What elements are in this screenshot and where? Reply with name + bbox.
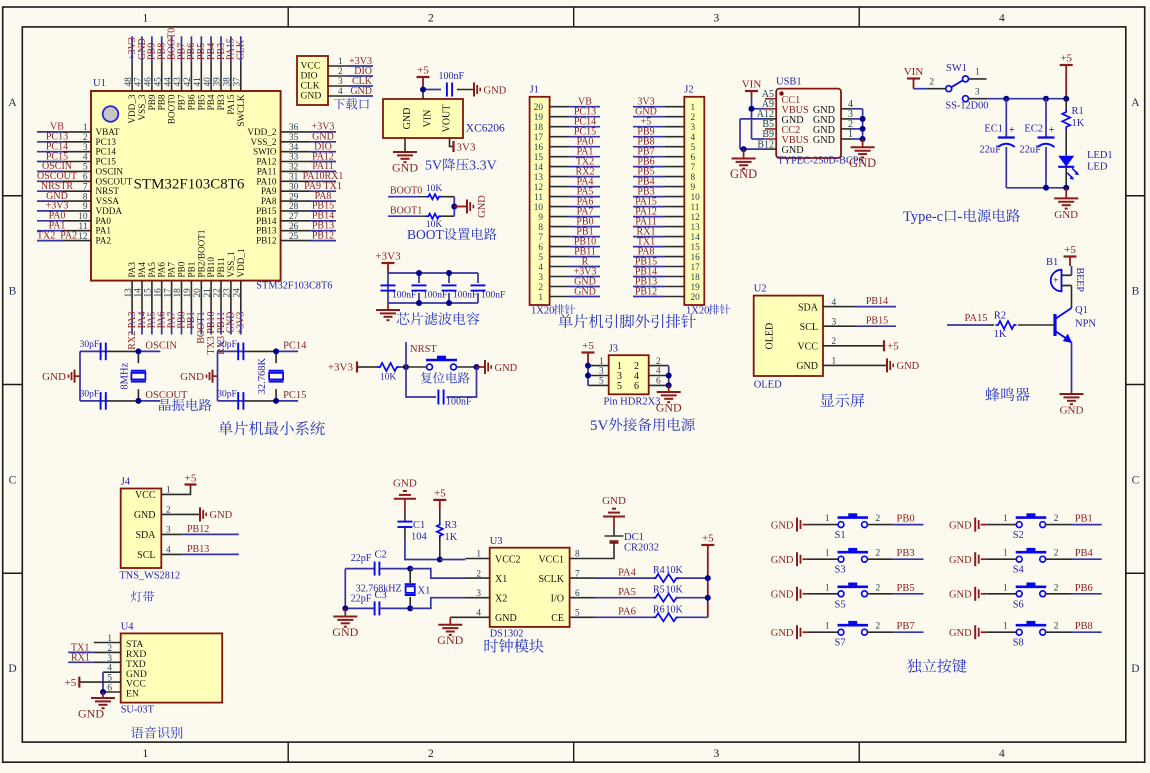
mcu U1 top pin 47 (VSS_3) wire+net GND: [141, 36, 143, 61]
svg-text:7: 7: [83, 182, 88, 192]
J1 pin 9 wire+net PA7: [550, 216, 570, 218]
svg-text:17: 17: [534, 133, 544, 143]
J2 pin 8 wire+net PB5: [664, 176, 684, 178]
J1 pin 1 wire+net GND: [550, 296, 570, 298]
J1 pin 6 wire+net PB10: [550, 246, 570, 248]
svg-text:47: 47: [134, 77, 144, 87]
J2 pin 5 wire+net PB8: [664, 146, 684, 148]
svg-text:PA8: PA8: [261, 196, 277, 206]
capacitor 30pF bottom 8MHz: [100, 392, 102, 410]
svg-text:GND: GND: [134, 510, 156, 521]
svg-text:15: 15: [534, 153, 544, 163]
svg-text:100nF: 100nF: [481, 291, 505, 301]
svg-text:PB6: PB6: [186, 94, 196, 110]
svg-text:10: 10: [691, 193, 701, 203]
svg-text:3: 3: [691, 123, 696, 133]
power port 3V3 at regulator output: [452, 141, 454, 152]
svg-text:+5: +5: [434, 487, 446, 499]
svg-text:30: 30: [289, 182, 299, 192]
connector J3 Pin HDR2X3: [609, 355, 649, 394]
svg-text:DS1302: DS1302: [490, 629, 524, 640]
svg-text:5: 5: [538, 253, 543, 263]
mcu U1 top pin 39 (PB3) wire+net PB3: [220, 36, 222, 61]
svg-text:19: 19: [534, 113, 544, 123]
svg-text:VDDA: VDDA: [96, 206, 123, 216]
svg-text:2: 2: [876, 622, 881, 632]
svg-text:B: B: [1132, 286, 1140, 298]
J3 right pin 4 wire: [649, 375, 669, 377]
svg-text:3: 3: [714, 13, 720, 25]
svg-text:1: 1: [143, 13, 149, 25]
svg-text:8: 8: [691, 173, 696, 183]
regulator GND pin wire: [404, 138, 406, 152]
svg-text:2: 2: [656, 357, 661, 367]
svg-text:PB1: PB1: [186, 261, 196, 277]
svg-text:1: 1: [825, 514, 830, 524]
caption display: [820, 394, 834, 407]
J3 gnd rail: [668, 366, 670, 386]
svg-text:J1: J1: [530, 85, 539, 96]
svg-text:VCC: VCC: [797, 342, 818, 353]
svg-text:16: 16: [153, 288, 163, 298]
U3 SCLK wire net PA4 + resistor R4 10K: [570, 577, 596, 579]
U3 GND pin wire to ground: [450, 616, 489, 618]
svg-text:2: 2: [538, 283, 543, 293]
svg-text:VDD_1: VDD_1: [236, 248, 246, 277]
capacitor 100nF reset: [406, 367, 436, 397]
svg-text:S4: S4: [1013, 565, 1025, 576]
svg-text:+: +: [1053, 276, 1059, 287]
svg-text:40: 40: [203, 77, 213, 87]
mcu U1 top pin 43 (PB7) wire+net PB7: [181, 36, 183, 61]
svg-text:8MHz: 8MHz: [119, 362, 130, 389]
capacitor 100nF at regulator input: [446, 83, 448, 97]
svg-text:+5: +5: [887, 341, 899, 353]
svg-text:PB2/BOOT1: PB2/BOOT1: [196, 229, 206, 277]
J3 right pin 2 wire: [649, 365, 669, 367]
svg-text:S1: S1: [835, 530, 846, 541]
svg-text:6: 6: [691, 153, 696, 163]
svg-text:31: 31: [289, 173, 299, 183]
svg-text:VSS_2: VSS_2: [250, 137, 276, 147]
svg-text:GND: GND: [393, 478, 417, 490]
caption LED strip: [131, 591, 142, 602]
mcu U1 top pin 46 (PB9) wire+net PB9: [151, 36, 153, 61]
J4 VCC wire to +5: [161, 488, 190, 495]
svg-text:10K: 10K: [426, 184, 443, 194]
svg-text:10: 10: [534, 203, 544, 213]
svg-text:S5: S5: [835, 599, 846, 610]
svg-text:NRST: NRST: [96, 186, 120, 196]
svg-text:28: 28: [289, 202, 299, 212]
svg-text:1: 1: [83, 123, 88, 133]
mcu U1 bottom pin 15 (PA5) wire+net PA5: [151, 281, 153, 311]
ground crystal rail: [342, 605, 348, 611]
svg-text:1: 1: [338, 57, 343, 67]
svg-text:TX2 PA2: TX2 PA2: [37, 230, 77, 241]
resistor 10K (BOOT0): [417, 196, 426, 198]
svg-text:SU-03T: SU-03T: [121, 705, 155, 716]
svg-text:30pF: 30pF: [217, 340, 237, 350]
mcu U1 right pin 27 (PB14) wire+net PB14: [281, 220, 310, 222]
svg-text:22uF: 22uF: [979, 145, 1001, 156]
svg-text:1: 1: [599, 357, 604, 367]
svg-text:4: 4: [999, 748, 1005, 760]
svg-text:1: 1: [1003, 583, 1008, 593]
net PA15 wire: [947, 324, 987, 326]
svg-text:GND: GND: [771, 628, 794, 639]
svg-text:GND: GND: [771, 520, 794, 531]
svg-text:4: 4: [338, 87, 343, 97]
U2 GND wire to ground: [843, 364, 886, 366]
J1 pin 15 wire+net PA1: [550, 156, 570, 158]
svg-text:SWIO: SWIO: [253, 147, 277, 157]
J4 GND wire to ground: [161, 513, 199, 515]
J1 pin 7 wire+net PB1: [550, 236, 570, 238]
clock U3 DS1302 body: [490, 548, 570, 627]
svg-text:29: 29: [289, 192, 299, 202]
svg-text:GND: GND: [210, 510, 233, 521]
battery DC1 CR2032: [613, 517, 615, 529]
svg-text:Pin HDR2X3: Pin HDR2X3: [604, 397, 661, 408]
svg-text:3: 3: [714, 748, 720, 760]
svg-text:5V: 5V: [590, 418, 609, 434]
svg-text:5: 5: [691, 143, 696, 153]
svg-text:48: 48: [124, 77, 134, 87]
svg-text:GND: GND: [813, 135, 835, 146]
mcu U1 STM32F103C8T6: [91, 91, 281, 281]
svg-text:PB14: PB14: [866, 296, 888, 307]
svg-text:CR2032: CR2032: [624, 543, 659, 554]
svg-text:2: 2: [876, 514, 881, 524]
svg-text:25: 25: [289, 232, 299, 242]
J3 left pin 1 wire: [588, 365, 609, 367]
svg-text:27: 27: [289, 212, 299, 222]
svg-text:PA5: PA5: [618, 587, 636, 598]
svg-text:20: 20: [691, 293, 701, 303]
J1 pin 16 wire+net PA0: [550, 146, 570, 148]
capacitor C3 22pF: [345, 607, 374, 609]
crystal 32.768K: [275, 351, 277, 363]
svg-text:18: 18: [691, 273, 701, 283]
svg-text:12: 12: [78, 232, 88, 242]
svg-text:+3V3: +3V3: [236, 312, 247, 335]
svg-text:OLED: OLED: [754, 380, 782, 391]
mcu U1 right pin 33 (PA12) wire+net PA12: [281, 161, 310, 163]
mcu U1 left pin 9 (VDDA) wire+net +3V3: [37, 210, 63, 212]
node OSCOUT: [135, 398, 141, 404]
svg-text:GND: GND: [78, 707, 104, 721]
svg-text:+: +: [1049, 124, 1055, 136]
connector J4 TNS_WS2812 body: [121, 489, 162, 569]
svg-text:PC13: PC13: [96, 137, 117, 147]
push button S4: [987, 558, 1017, 560]
svg-text:PB7: PB7: [177, 94, 187, 110]
svg-text:PB1: PB1: [1075, 514, 1093, 525]
J2 pin 2 wire+net GND: [664, 116, 684, 118]
svg-text:10K: 10K: [666, 565, 684, 576]
wire X1 net to U3.X1: [410, 569, 465, 579]
svg-text:1: 1: [848, 129, 853, 140]
svg-text:PB11: PB11: [216, 257, 226, 277]
svg-text:VOUT: VOUT: [442, 105, 453, 133]
svg-text:J4: J4: [121, 477, 131, 488]
ground symbol below regulator: [393, 151, 417, 153]
power ground right of 100nF cap: [473, 83, 475, 97]
svg-text:PC15: PC15: [283, 390, 306, 401]
svg-text:17: 17: [691, 263, 701, 273]
svg-text:9: 9: [691, 183, 696, 193]
svg-text:6: 6: [634, 381, 639, 392]
svg-text:39: 39: [213, 77, 223, 87]
svg-text:CLK: CLK: [236, 39, 247, 60]
connector J1 1X20 header: [530, 97, 550, 305]
svg-text:6: 6: [656, 377, 661, 387]
svg-text:U1: U1: [93, 78, 106, 89]
svg-text:GND: GND: [949, 590, 972, 601]
download port pin 3 wire+net CLK: [328, 85, 348, 87]
J2 pin 15 wire+net TX1: [664, 246, 684, 248]
svg-text:2: 2: [428, 748, 434, 760]
svg-text:8: 8: [83, 192, 88, 202]
mcu U1 left pin 7 (NRST) wire+net NRSTR: [37, 190, 63, 192]
svg-text:VIN: VIN: [742, 79, 762, 91]
svg-text:LED: LED: [1087, 162, 1108, 173]
svg-text:VCC2: VCC2: [495, 554, 521, 565]
svg-text:R3: R3: [445, 520, 457, 531]
mcu U1 right pin 30 (PA9) wire+net PA9 TX1: [281, 190, 310, 192]
mcu U1 right pin 26 (PB13) wire+net PB13: [281, 230, 310, 232]
svg-text:OSCIN: OSCIN: [96, 166, 124, 176]
svg-text:20: 20: [193, 288, 203, 298]
svg-text:PB0: PB0: [177, 261, 187, 277]
svg-text:VCC1: VCC1: [538, 554, 564, 565]
svg-text:41: 41: [193, 77, 203, 87]
svg-text:B: B: [9, 286, 17, 298]
caption clock module: [485, 639, 499, 653]
wire USB GND pins: [740, 118, 765, 120]
ground U4: [91, 697, 115, 699]
J2 pin 6 wire+net PB7: [664, 156, 684, 158]
mcu U1 top pin 42 (PB6) wire+net PB6: [190, 36, 192, 61]
power ground at BOOT divider: [466, 200, 468, 214]
svg-text:15: 15: [144, 288, 154, 298]
svg-text:PB7: PB7: [897, 621, 915, 632]
svg-text:2: 2: [1054, 622, 1059, 632]
svg-text:R2: R2: [994, 311, 1006, 322]
svg-text:PB12: PB12: [635, 287, 657, 298]
download port pin 4 wire+net GND: [328, 95, 348, 97]
svg-text:NRST: NRST: [410, 344, 437, 355]
svg-text:10K: 10K: [380, 373, 397, 383]
svg-text:C1: C1: [413, 520, 425, 531]
wire net PB8: [1072, 631, 1102, 633]
svg-text:Type-c: Type-c: [903, 209, 943, 225]
svg-text:SW1: SW1: [946, 63, 967, 74]
J1 pin 19 wire+net PC13: [550, 116, 570, 118]
mcu U1 top pin 38 (PA15) wire+net PA15: [230, 36, 232, 61]
svg-text:GND: GND: [730, 167, 757, 181]
wire joining BOOT resistors: [453, 197, 455, 217]
filter cap rails: [388, 272, 478, 274]
ground USB right: [851, 146, 875, 148]
caption chip filter caps: [397, 312, 410, 324]
svg-text:PA4: PA4: [137, 262, 147, 278]
svg-text:+3V3: +3V3: [375, 251, 401, 263]
svg-text:J2: J2: [684, 85, 693, 96]
mcu U1 right pin 35 (VSS_2) wire+net GND: [281, 141, 310, 143]
svg-text:GND: GND: [771, 555, 794, 566]
wire net PB5: [893, 593, 923, 595]
svg-text:Q1: Q1: [1075, 305, 1088, 316]
svg-text:22pF: 22pF: [351, 553, 372, 564]
J1 pin 12 wire+net PA4: [550, 186, 570, 188]
svg-text:14: 14: [691, 233, 701, 243]
svg-text:1: 1: [691, 103, 696, 113]
svg-text:PB10: PB10: [206, 257, 216, 278]
mcu U1 bottom pin 16 (PA6) wire+net PA6: [161, 281, 163, 311]
svg-text:15: 15: [691, 243, 701, 253]
mcu U1 top pin 40 (PB4) wire+net PB4: [210, 36, 212, 61]
svg-text:GND: GND: [495, 363, 518, 374]
svg-text:PB12: PB12: [256, 236, 277, 246]
svg-text:GND: GND: [949, 520, 972, 531]
wire net PB6: [1072, 593, 1102, 595]
diode LED1: [1058, 156, 1074, 167]
svg-text:5V: 5V: [425, 159, 442, 174]
svg-text:100nF: 100nF: [392, 291, 416, 301]
svg-text:S6: S6: [1013, 599, 1024, 610]
svg-text:1: 1: [1003, 549, 1008, 559]
ground USB left: [732, 158, 756, 160]
mcu U1 top pin 45 (PB8) wire+net PB8: [161, 36, 163, 61]
mcu U1 bottom pin 18 (PB0) wire+net PB0: [181, 281, 183, 311]
ground J3: [657, 391, 681, 393]
svg-text:GND: GND: [602, 495, 626, 507]
svg-text:1: 1: [143, 748, 149, 760]
svg-text:BOOT1: BOOT1: [390, 206, 422, 217]
J3 left pin 3 wire: [588, 375, 609, 377]
svg-text:GND: GND: [332, 625, 358, 639]
U4 VCC wire to +5: [79, 681, 120, 683]
svg-text:GND: GND: [849, 156, 876, 170]
svg-text:PB4: PB4: [206, 94, 216, 110]
wire buzzer to Q1 collector: [1071, 286, 1073, 309]
J1 pin 14 wire+net TX2: [550, 166, 570, 168]
svg-text:7: 7: [691, 163, 696, 173]
svg-text:GND: GND: [949, 628, 972, 639]
svg-text:8: 8: [538, 223, 543, 233]
caption crystal circuit: [159, 399, 171, 411]
mcu U1 pin-1 marker circle: [103, 106, 119, 122]
svg-text:16: 16: [534, 143, 544, 153]
svg-text:2: 2: [1054, 549, 1059, 559]
svg-text:4: 4: [999, 13, 1005, 25]
svg-text:A: A: [1131, 97, 1140, 109]
capacitor 100nF filter #4: [477, 273, 479, 283]
svg-text:19: 19: [691, 283, 701, 293]
svg-text:XC6206: XC6206: [466, 123, 505, 135]
svg-text:PB15: PB15: [256, 206, 277, 216]
svg-text:PA5: PA5: [147, 262, 157, 278]
J2 pin 10 wire+net PB3: [664, 196, 684, 198]
capacitor 100nF filter #3: [448, 273, 450, 283]
svg-text:GND: GND: [392, 161, 418, 175]
svg-text:46: 46: [144, 77, 154, 87]
svg-text:32.768K: 32.768K: [257, 358, 268, 395]
download port pin 1 wire+net +3V3: [328, 65, 348, 67]
J3 left pin 5 wire: [588, 384, 609, 386]
svg-text:SCL: SCL: [800, 322, 818, 333]
svg-text:1: 1: [825, 583, 830, 593]
svg-text:USB1: USB1: [776, 77, 802, 88]
svg-text:1: 1: [975, 68, 980, 78]
svg-text:SCLK: SCLK: [538, 574, 564, 585]
svg-text:13: 13: [124, 288, 134, 298]
USB right gnd rail: [862, 109, 864, 139]
resistor R1 1K: [1065, 99, 1067, 110]
svg-text:18: 18: [173, 288, 183, 298]
svg-text:PB13: PB13: [187, 544, 209, 555]
crystal X1: [407, 566, 413, 572]
svg-text:1K: 1K: [994, 329, 1007, 340]
capacitor 100nF filter #2: [418, 273, 420, 283]
svg-text:EC2: EC2: [1024, 124, 1043, 135]
J1 pin 17 wire+net PC15: [550, 136, 570, 138]
svg-text:18: 18: [534, 123, 544, 133]
U2 VCC wire to +5: [843, 345, 884, 347]
connector USB1 TYPEC body: [776, 89, 841, 158]
mcu U1 left pin 2 (PC13) wire+net PC13: [37, 141, 63, 143]
svg-text:24: 24: [233, 288, 243, 298]
svg-text:42: 42: [183, 77, 193, 87]
svg-text:11: 11: [79, 222, 88, 232]
ground below filter caps: [387, 303, 389, 310]
mcu U1 right pin 25 (PB12) wire+net PB12: [281, 240, 310, 242]
svg-text:2: 2: [929, 78, 934, 88]
wire cap to gnd: [457, 89, 474, 91]
svg-text:4: 4: [538, 263, 543, 273]
J2 pin 1 wire+net 3V3: [664, 106, 684, 108]
svg-text:EN: EN: [126, 689, 139, 700]
U2 SDA wire net PB14: [843, 306, 856, 308]
download port pin 2 wire+net DIO: [328, 75, 348, 77]
svg-text:35: 35: [289, 133, 299, 143]
J4 SCL wire net PB13: [161, 553, 183, 555]
svg-text:5: 5: [83, 163, 88, 173]
svg-text:-: -: [958, 209, 963, 225]
svg-text:B1: B1: [1046, 257, 1058, 268]
svg-text:1: 1: [1003, 514, 1008, 524]
wire net PB1: [1072, 524, 1102, 526]
svg-text:J3: J3: [609, 344, 618, 355]
svg-text:CE: CE: [551, 613, 564, 624]
svg-text:PA1: PA1: [96, 226, 112, 236]
connector J2 1X20 header: [684, 97, 704, 305]
svg-text:43: 43: [173, 77, 183, 87]
push button S7: [809, 631, 839, 633]
svg-text:PB8: PB8: [157, 94, 167, 110]
svg-text:PB4: PB4: [1075, 548, 1094, 559]
display U2 OLED body: [754, 296, 823, 376]
svg-text:100nF: 100nF: [423, 291, 447, 301]
svg-text:+: +: [1009, 124, 1015, 136]
J1 pin 4 wire+net R: [550, 266, 570, 268]
capacitor EC2 22uF: [1045, 99, 1047, 137]
svg-text:22: 22: [213, 288, 223, 298]
svg-text:PB8: PB8: [1075, 621, 1093, 632]
svg-text:1: 1: [825, 622, 830, 632]
